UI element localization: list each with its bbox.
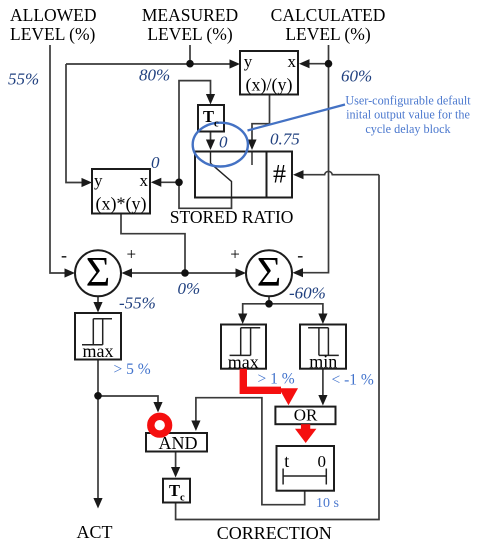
svg-text:LEVEL (%): LEVEL (%) [147, 24, 233, 44]
svg-text:AND: AND [159, 433, 198, 453]
svg-text:STORED RATIO: STORED RATIO [170, 207, 294, 227]
svg-text:60%: 60% [341, 67, 372, 86]
svg-text:#: # [273, 160, 286, 189]
svg-text:x: x [140, 171, 149, 190]
svg-text:0.75: 0.75 [270, 130, 300, 149]
svg-text:(x)/(y): (x)/(y) [246, 75, 293, 96]
svg-text:CALCULATED: CALCULATED [271, 5, 386, 25]
svg-text:y: y [94, 171, 103, 190]
svg-text:Σ: Σ [86, 250, 110, 296]
svg-text:y: y [244, 52, 253, 71]
svg-text:0: 0 [219, 133, 228, 152]
svg-text:+: + [230, 245, 240, 264]
svg-text:OR: OR [294, 406, 318, 425]
svg-text:ACT: ACT [77, 522, 113, 542]
svg-text:10 s: 10 s [316, 496, 339, 511]
svg-text:LEVEL (%): LEVEL (%) [285, 24, 371, 44]
svg-text:-55%: -55% [119, 293, 156, 312]
svg-text:MEASURED: MEASURED [142, 5, 238, 25]
svg-text:< -1 %: < -1 % [332, 372, 374, 389]
svg-text:ALLOWED: ALLOWED [10, 5, 97, 25]
svg-text:> 1 %: > 1 % [258, 370, 295, 387]
svg-text:0: 0 [151, 153, 160, 172]
svg-text:-: - [297, 245, 303, 265]
svg-text:> 5 %: > 5 % [114, 361, 151, 378]
svg-text:min: min [309, 351, 337, 371]
svg-text:t: t [284, 451, 289, 471]
svg-text:0: 0 [318, 452, 327, 471]
svg-text:User-configurable default: User-configurable default [345, 93, 471, 107]
svg-text:inital output value for the: inital output value for the [346, 108, 470, 122]
svg-text:55%: 55% [8, 70, 39, 89]
svg-text:(x)*(y): (x)*(y) [96, 194, 147, 215]
svg-text:80%: 80% [139, 65, 170, 84]
svg-text:LEVEL (%): LEVEL (%) [10, 24, 96, 44]
svg-text:max: max [228, 352, 259, 372]
svg-text:cycle delay block: cycle delay block [365, 122, 451, 136]
svg-text:Σ: Σ [257, 250, 281, 296]
svg-text:-: - [61, 245, 67, 265]
svg-text:CORRECTION: CORRECTION [217, 523, 332, 543]
svg-text:0%: 0% [178, 279, 201, 298]
svg-text:max: max [83, 341, 114, 361]
svg-text:-60%: -60% [289, 284, 326, 303]
svg-text:x: x [288, 52, 297, 71]
svg-text:+: + [127, 245, 137, 264]
